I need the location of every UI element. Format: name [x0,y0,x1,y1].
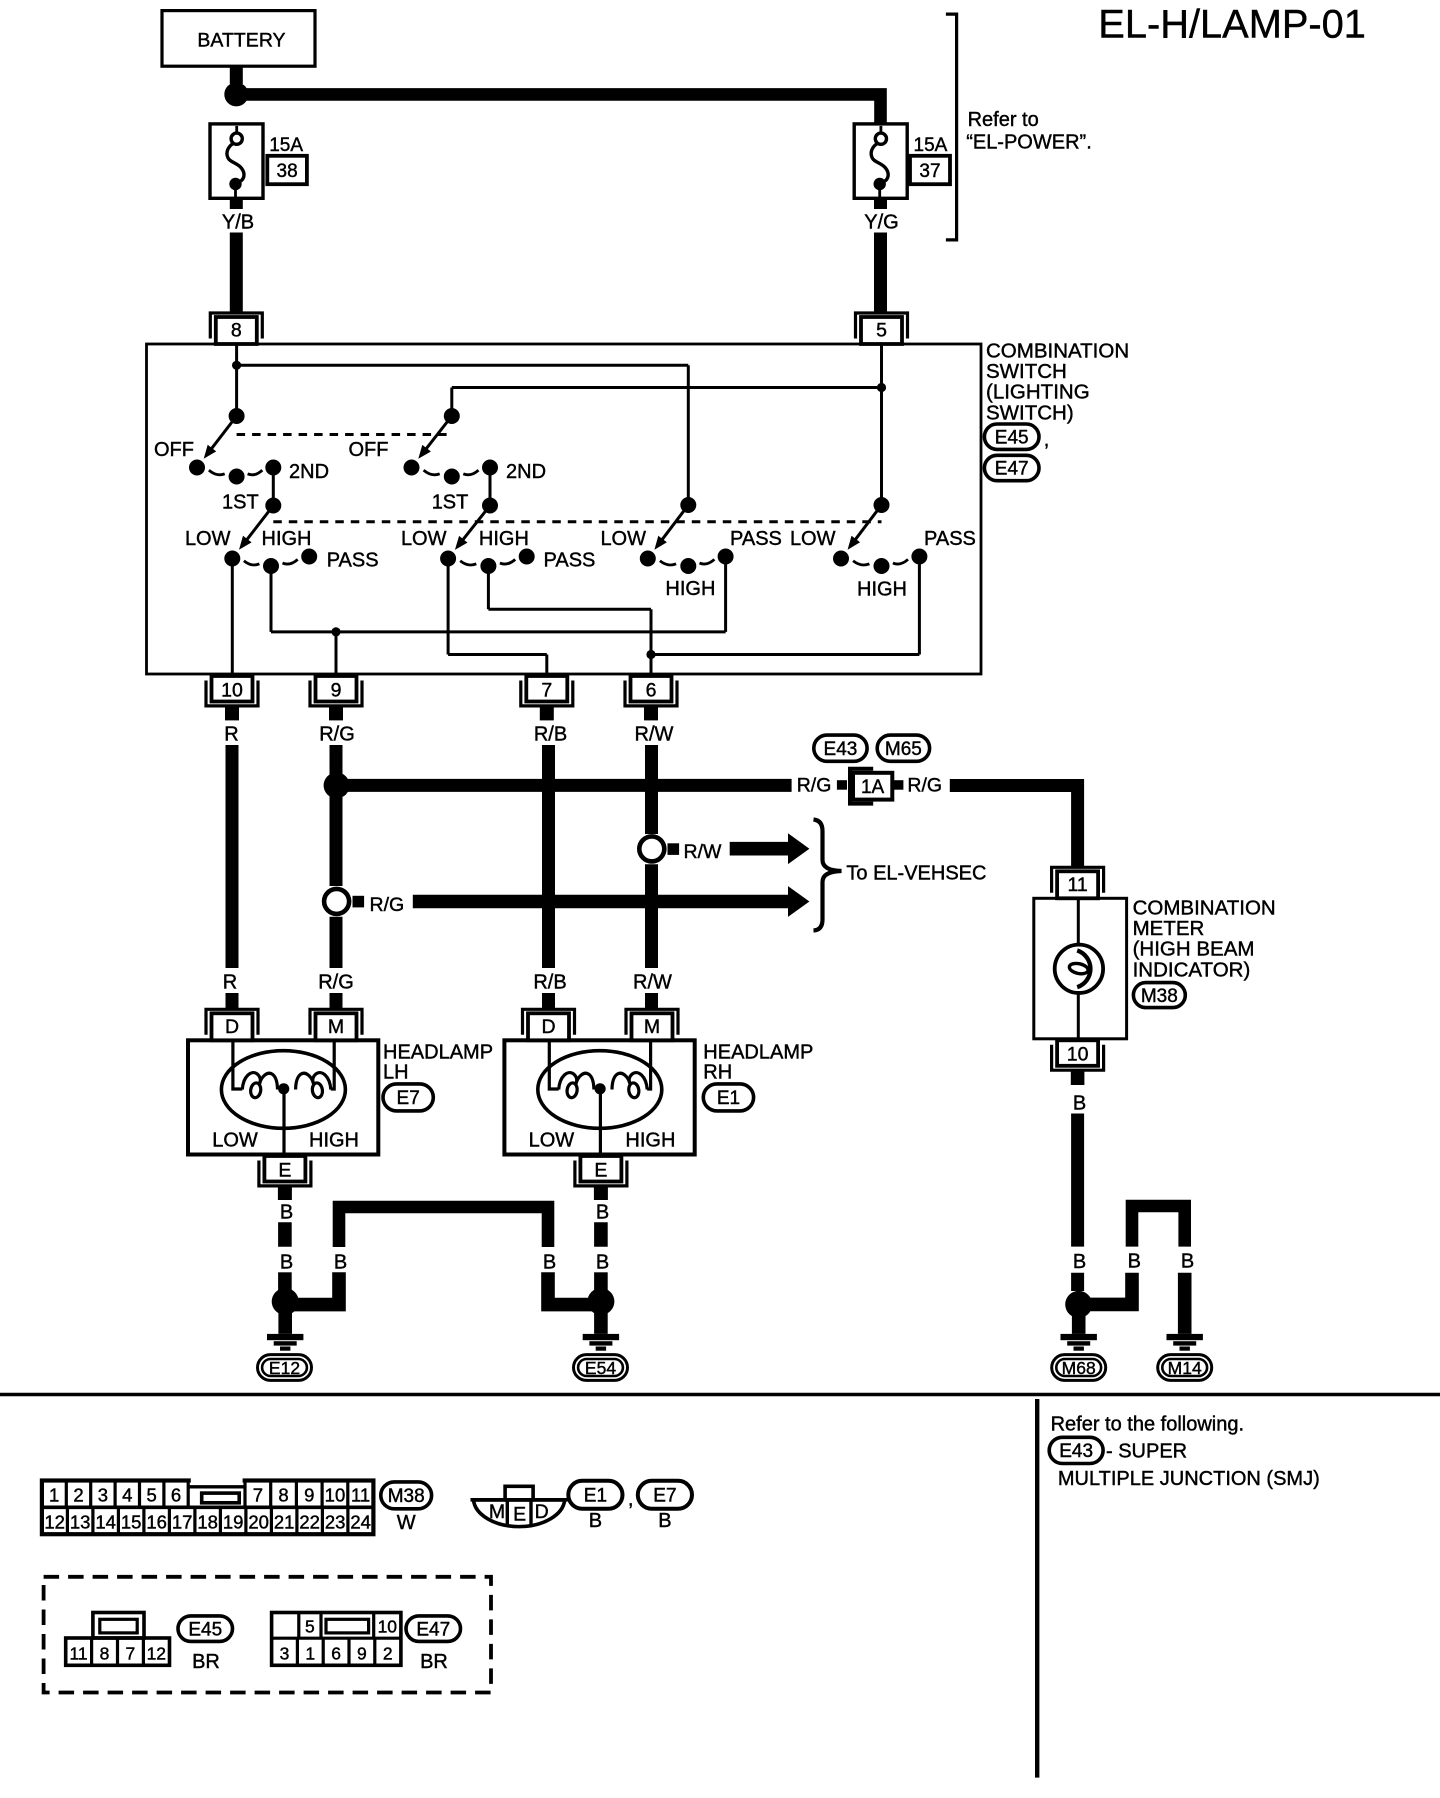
wire B meter [1071,1114,1084,1247]
svg-text:5: 5 [876,320,887,342]
svg-text:3: 3 [280,1643,290,1663]
wire B meter low [1071,1273,1084,1291]
svg-text:4: 4 [122,1485,132,1506]
svg-text:2ND: 2ND [289,461,329,483]
svg-text:9: 9 [304,1485,314,1506]
svg-text:,: , [1044,429,1050,451]
wire battery stub [230,66,243,84]
wire fuse F1 lower stub [230,198,243,209]
connector terminal 9 [310,681,362,706]
dimmer2 arm arrow [462,506,490,541]
svg-text:B: B [334,1252,347,1274]
bracket refer to EL-POWER [946,14,957,240]
svg-text:B: B [1073,1251,1086,1273]
node ground junction M68 [1065,1291,1092,1318]
ground M14 label [1158,1355,1212,1381]
svg-text:Refer to the following.: Refer to the following. [1051,1413,1244,1435]
svg-text:17: 17 [172,1511,193,1532]
fuse F2 15A [854,124,907,198]
node switch2 common [444,408,460,424]
svg-text:1ST: 1ST [432,491,469,513]
svg-text:10: 10 [378,1616,398,1636]
contact 2ND sw1 [265,460,281,476]
svg-text:E: E [278,1159,291,1181]
svg-text:E1: E1 [584,1486,607,1507]
node vehsec pad R/W [668,843,680,855]
svg-text:2ND: 2ND [506,461,546,483]
wire battery feed [236,94,880,124]
combination switch box [147,344,982,674]
ground E54 label [574,1355,628,1381]
dimmer3 arm arrow [661,505,688,541]
connector E43 label [814,735,867,761]
svg-text:1: 1 [305,1643,315,1663]
svg-text:PASS: PASS [544,550,596,572]
svg-text:B: B [589,1510,602,1532]
fuse F2 number 37 [910,156,950,184]
filament low LH [242,1073,260,1090]
svg-text:21: 21 [274,1511,295,1532]
wire fuse F2 lower stub [874,198,887,209]
svg-text:B: B [1181,1250,1194,1272]
wire LOW1 to term10 [231,559,234,675]
contact PASS sw4 [911,549,927,565]
wire B link LH-RH [339,1207,548,1247]
svg-text:8: 8 [278,1485,288,1506]
connector E1 label [703,1084,753,1111]
filament high RH [629,1073,647,1090]
svg-text:B: B [1073,1093,1086,1115]
wire HIGH1 bus [270,566,273,632]
svg-text:38: 38 [277,161,298,182]
svg-text:E7: E7 [397,1088,420,1109]
wire meter stub [1071,1071,1085,1085]
svg-text:(LIGHTING: (LIGHTING [986,381,1090,404]
svg-text:M38: M38 [1141,986,1178,1007]
node term9 junction [331,627,340,636]
wire Y/B [230,233,243,313]
wire feed to switch3 [237,364,689,367]
battery box [162,11,315,67]
svg-text:BR: BR [420,1651,448,1673]
svg-text:HIGH: HIGH [309,1130,359,1152]
wire term9 stub [329,707,343,720]
svg-text:E43: E43 [824,739,858,760]
svg-text:M14: M14 [1168,1358,1202,1378]
wire term7 stub [540,707,554,720]
contact OFF sw1 [189,460,205,476]
svg-text:HEADLAMP: HEADLAMP [383,1041,493,1063]
connector E47 face label [406,1616,461,1642]
svg-text:R/G: R/G [319,724,355,746]
connector E7 label [383,1084,433,1111]
connector E47 label [984,455,1039,480]
svg-text:E45: E45 [995,427,1029,448]
connector terminal 11 [1052,867,1104,893]
contact LOW sw2 [440,551,456,567]
svg-text:37: 37 [919,161,940,182]
wire 2ND sw1 to low common [272,468,275,506]
contact 2ND sw2 [482,460,498,476]
svg-text:1A: 1A [861,777,885,798]
svg-text:OFF: OFF [154,439,194,461]
contact LOW sw3 [640,551,656,567]
svg-text:B: B [596,1202,609,1224]
ground E12 label [258,1355,312,1381]
svg-text:R/G: R/G [907,775,942,797]
svg-text:LOW: LOW [529,1130,575,1152]
connector M38 pinout [42,1481,374,1535]
svg-text:6: 6 [646,679,657,701]
svg-text:6: 6 [171,1485,181,1506]
svg-text:22: 22 [299,1511,320,1532]
wire R/W upper seg [645,745,658,834]
connector M65 label [877,735,929,761]
node switch1 common [229,408,245,424]
contact HIGH sw4 [874,558,890,574]
contact links sw3 lower [660,561,676,565]
wire R/G upper seg [330,745,343,886]
wire term6 stub [644,707,658,720]
svg-text:14: 14 [95,1511,116,1532]
wire R/G to meter [950,786,1078,867]
svg-text:13: 13 [70,1511,91,1532]
wire 2ND sw2 to low common [489,468,492,506]
brace to EL-VEHSEC [814,820,842,931]
connector E7 pinout label [638,1481,692,1509]
svg-text:E47: E47 [995,459,1029,480]
svg-text:23: 23 [325,1511,346,1532]
connector terminal 7 [521,681,573,706]
footer divider [1035,1399,1039,1778]
svg-text:PASS: PASS [730,528,782,550]
connector E1 pinout label [568,1481,622,1509]
svg-text:E45: E45 [188,1619,222,1640]
contact PASS sw2 [519,549,535,565]
svg-text:E47: E47 [416,1619,450,1640]
connector terminal E LH [259,1161,311,1186]
wire M14 left lower [1086,1273,1132,1305]
svg-text:,: , [628,1489,634,1511]
node vehsec pad R/G [353,896,365,908]
arrow to vehsec lower [413,895,789,909]
svg-text:B: B [280,1252,293,1274]
svg-text:“EL-POWER”.: “EL-POWER”. [966,132,1092,154]
svg-text:5: 5 [305,1616,315,1636]
switch1 arm arrow [211,416,237,450]
wire R/B drop [542,993,555,1009]
svg-text:- SUPER: - SUPER [1106,1441,1187,1463]
connector terminal M LH [310,1009,362,1035]
contact links sw2 upper [424,470,440,475]
svg-text:LOW: LOW [185,528,231,550]
svg-text:12: 12 [147,1643,166,1663]
svg-text:HIGH: HIGH [625,1130,675,1152]
ground symbol M68 [1061,1334,1097,1340]
contact HIGH sw3 [680,558,696,574]
svg-text:OFF: OFF [349,439,389,461]
svg-text:D: D [535,1501,549,1523]
svg-text:10: 10 [1067,1044,1089,1066]
contact links sw1 upper [209,470,225,475]
svg-text:8: 8 [231,320,242,342]
svg-text:HEADLAMP: HEADLAMP [703,1041,813,1063]
svg-text:B: B [1128,1250,1141,1272]
connector terminal D RH [523,1009,575,1035]
mech link dashed upper [237,433,452,436]
svg-text:LH: LH [383,1062,409,1084]
wire Y/G [874,233,887,313]
connector E45 face label [178,1616,233,1642]
connector M38 pinout label [381,1482,432,1509]
headlamp LH box [188,1040,378,1154]
wire R/W lower seg [645,864,658,968]
wire ground stub LH [278,1313,292,1334]
fuse F1 15A [210,124,263,198]
svg-text:HIGH: HIGH [479,528,529,550]
bulb ellipse LH [221,1051,345,1129]
mech link dashed lower [273,520,881,523]
svg-text:D: D [541,1016,555,1038]
svg-text:3: 3 [98,1485,108,1506]
contact PASS sw3 [718,549,734,565]
svg-text:SWITCH): SWITCH) [986,401,1074,424]
node term6 junction [646,650,655,659]
svg-text:M38: M38 [388,1486,425,1507]
wire B LH low [278,1272,292,1290]
wire PASS4 bus [651,653,919,656]
connector SMJ 1A [850,769,873,804]
node ground junction LH [272,1288,299,1315]
svg-text:5: 5 [147,1485,157,1506]
wire R/G branch [337,779,792,792]
svg-text:R/W: R/W [684,841,723,863]
connector E45 label [984,424,1039,449]
svg-text:M68: M68 [1062,1358,1096,1378]
svg-text:2: 2 [73,1485,83,1506]
wire R/G drop [330,993,343,1009]
svg-text:MULTIPLE JUNCTION (SMJ): MULTIPLE JUNCTION (SMJ) [1058,1468,1320,1490]
svg-text:W: W [397,1512,416,1534]
node ground junction RH [587,1288,614,1315]
connector M38 label [1133,983,1185,1008]
wire E RH stub [594,1187,608,1200]
contact HIGH sw1 [263,558,279,574]
svg-text:LOW: LOW [212,1130,258,1152]
svg-text:Y/B: Y/B [222,212,254,234]
meter lead upper [1077,898,1080,946]
bulb lead high RH [647,1040,650,1089]
svg-text:1ST: 1ST [222,491,259,513]
wire HIGH2 to term6 [487,566,490,609]
wire M14 loop [1132,1206,1185,1247]
wire B LH mid [278,1222,292,1246]
bulb center post LH [278,1083,289,1094]
svg-text:M: M [328,1016,344,1038]
wire R/B [542,745,555,968]
svg-text:12: 12 [44,1511,65,1532]
svg-text:D: D [225,1016,239,1038]
svg-text:19: 19 [223,1511,244,1532]
bulb lead high LH [331,1040,334,1089]
filament high LH [313,1073,331,1090]
svg-text:BR: BR [192,1651,220,1673]
node switch3 common [680,497,696,513]
svg-text:15A: 15A [269,135,303,156]
svg-text:1: 1 [49,1485,59,1506]
wire conn5 to switch4 common [880,344,883,505]
svg-text:R/W: R/W [635,724,674,746]
svg-text:R/B: R/B [534,724,567,746]
svg-text:B: B [658,1510,671,1532]
svg-text:INDICATOR): INDICATOR) [1133,958,1251,981]
wire R/G lower seg [330,917,343,968]
wire LOW2 to term7 [447,559,450,655]
contact LOW sw4 [833,551,849,567]
wire feed to switch2 [452,386,882,389]
svg-text:E54: E54 [585,1358,616,1378]
wire B RH mid [594,1222,608,1246]
bulb lead low RH [549,1040,558,1089]
connector terminal 8 [210,313,262,339]
svg-text:R/B: R/B [533,972,566,994]
svg-text:R: R [223,972,237,994]
svg-text:EL-H/LAMP-01: EL-H/LAMP-01 [1098,3,1366,47]
wire R [226,745,239,968]
svg-text:HIGH: HIGH [857,579,907,601]
dimmer1 arm arrow [246,506,273,541]
ground M68 label [1052,1355,1106,1381]
svg-text:M: M [644,1016,660,1038]
meter lead lower [1077,991,1080,1039]
svg-text:RH: RH [703,1062,732,1084]
bulb ellipse RH [538,1051,662,1129]
svg-text:COMBINATION: COMBINATION [1133,897,1276,920]
contact LOW sw1 [224,551,240,567]
wire B link left lower [292,1272,339,1304]
connector terminal E RH [575,1161,627,1186]
ground symbol M14 [1167,1334,1203,1340]
svg-text:8: 8 [100,1643,110,1663]
svg-text:PASS: PASS [924,528,976,550]
svg-text:To EL-VEHSEC: To EL-VEHSEC [846,863,986,885]
svg-text:R/W: R/W [633,972,672,994]
svg-text:2: 2 [383,1643,393,1663]
svg-text:11: 11 [1067,874,1087,896]
high beam indicator bulb [1055,945,1103,993]
wire M14 right [1178,1273,1192,1334]
connector terminal 10 meter [1052,1045,1104,1070]
node dimmer1 common [265,498,281,514]
svg-text:E: E [594,1159,607,1181]
wire E LH stub [278,1187,292,1200]
connector inline circle R/W [639,836,664,861]
svg-text:15: 15 [121,1511,142,1532]
svg-text:B: B [280,1202,293,1224]
svg-text:E12: E12 [269,1358,300,1378]
svg-text:E1: E1 [717,1088,740,1109]
svg-text:M: M [489,1501,505,1523]
svg-text:SWITCH: SWITCH [986,360,1067,383]
connector terminal M RH [626,1009,678,1035]
ground symbol E54 [583,1334,619,1340]
svg-text:7: 7 [126,1643,136,1663]
node R/G junction [324,772,350,798]
headlamp RH box [504,1040,694,1154]
svg-text:R/G: R/G [318,972,354,994]
wire PASS3 drop [724,557,727,632]
node smj pad right [892,780,903,790]
wire term10 stub [225,707,239,720]
connector terminal 10 [206,681,258,706]
svg-text:Refer to: Refer to [968,109,1039,131]
wire conn8 to switch1 common [235,344,238,416]
connector terminal 5 [856,313,908,339]
connector terminal D LH [206,1009,258,1035]
node switch4 common [874,497,890,513]
svg-text:LOW: LOW [790,528,836,550]
wire R/W drop [645,993,658,1009]
svg-text:16: 16 [146,1511,167,1532]
bulb center post RH [595,1083,606,1094]
svg-text:PASS: PASS [327,550,379,572]
svg-text:9: 9 [357,1643,367,1663]
svg-text:R/G: R/G [370,894,405,916]
wire B RH low [594,1272,608,1290]
contact 1ST sw1 [229,469,245,485]
wire R drop [226,993,239,1009]
svg-text:7: 7 [253,1485,263,1506]
svg-text:6: 6 [331,1643,341,1663]
svg-text:9: 9 [331,679,342,701]
svg-text:E7: E7 [653,1486,676,1507]
contact links sw2 lower [460,561,476,565]
svg-text:R/G: R/G [797,775,832,797]
node switch4 feed junction [877,383,886,392]
contact PASS sw1 [301,549,317,565]
svg-text:7: 7 [541,679,552,701]
connector E45 face [66,1638,170,1665]
contact links sw4 lower [853,561,869,565]
svg-text:BATTERY: BATTERY [197,30,285,52]
svg-text:24: 24 [350,1511,371,1532]
node battery junction [224,82,248,106]
connector E1/E7 face [474,1500,565,1527]
separator line [0,1393,1440,1396]
svg-text:E: E [513,1504,526,1526]
svg-text:R: R [224,724,238,746]
contact OFF sw2 [404,460,420,476]
node dimmer2 common [482,498,498,514]
connector terminal 6 [625,681,677,706]
combination meter box [1034,898,1127,1039]
contact 1ST sw2 [444,469,460,485]
svg-text:LOW: LOW [600,528,646,550]
node switch feed junction [232,361,241,370]
svg-text:11: 11 [70,1643,88,1663]
svg-text:E43: E43 [1059,1441,1093,1462]
svg-text:M65: M65 [885,739,922,760]
svg-text:11: 11 [351,1485,370,1506]
wire ground stub RH [594,1313,608,1334]
filament low RH [559,1073,577,1090]
switch2 arm arrow [425,416,451,450]
svg-text:10: 10 [325,1485,346,1506]
wire junction to term9 [335,632,338,675]
connector inline circle R/G [324,889,349,914]
svg-text:B: B [543,1252,556,1274]
fuse F1 number 38 [267,156,307,184]
